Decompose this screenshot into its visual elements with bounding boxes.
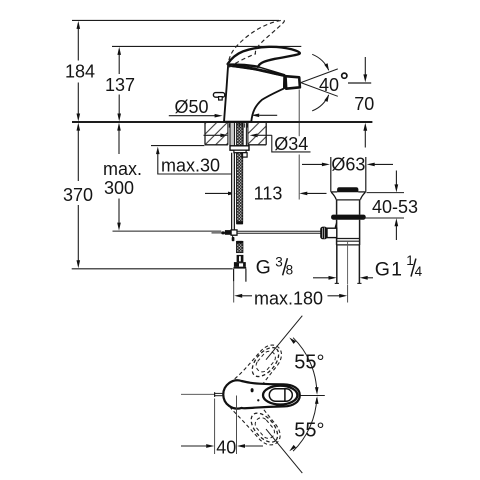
svg-text:300: 300 (104, 178, 134, 198)
svg-text:137: 137 (105, 75, 135, 95)
svg-text:G: G (256, 257, 271, 279)
svg-text:55°: 55° (294, 420, 324, 442)
svg-text:3: 3 (275, 255, 283, 270)
svg-text:G1: G1 (375, 259, 403, 281)
svg-text:70: 70 (354, 94, 374, 114)
svg-text:max.180: max.180 (254, 289, 323, 309)
svg-text:184: 184 (65, 62, 95, 82)
svg-text:40-53: 40-53 (372, 197, 418, 217)
svg-text:Ø63: Ø63 (331, 155, 365, 175)
svg-text:max.30: max.30 (161, 155, 220, 175)
svg-text:4: 4 (415, 264, 423, 279)
svg-text:Ø34: Ø34 (274, 134, 308, 154)
svg-text:Ø50: Ø50 (174, 97, 208, 117)
svg-text:370: 370 (63, 185, 93, 205)
svg-text:40: 40 (216, 438, 236, 458)
svg-text:55°: 55° (294, 352, 324, 374)
svg-text:40: 40 (319, 75, 339, 95)
svg-text:8: 8 (286, 263, 294, 278)
svg-text:max.: max. (103, 159, 142, 179)
svg-text:113: 113 (254, 184, 283, 204)
svg-text:1: 1 (406, 253, 414, 268)
